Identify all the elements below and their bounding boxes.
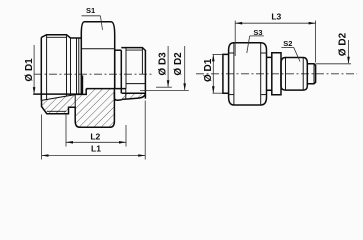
svg-text:Ø D1: Ø D1 (24, 58, 35, 82)
svg-text:Ø D1: Ø D1 (203, 58, 214, 82)
svg-text:Ø D3: Ø D3 (158, 52, 169, 76)
svg-text:Ø D2: Ø D2 (338, 32, 349, 56)
svg-text:Ø D2: Ø D2 (173, 52, 184, 76)
svg-text:L2: L2 (90, 131, 100, 141)
svg-text:S2: S2 (283, 39, 292, 48)
svg-text:L1: L1 (91, 144, 101, 154)
svg-text:S1: S1 (86, 6, 95, 15)
svg-text:S3: S3 (253, 28, 262, 37)
svg-text:L3: L3 (271, 11, 281, 21)
